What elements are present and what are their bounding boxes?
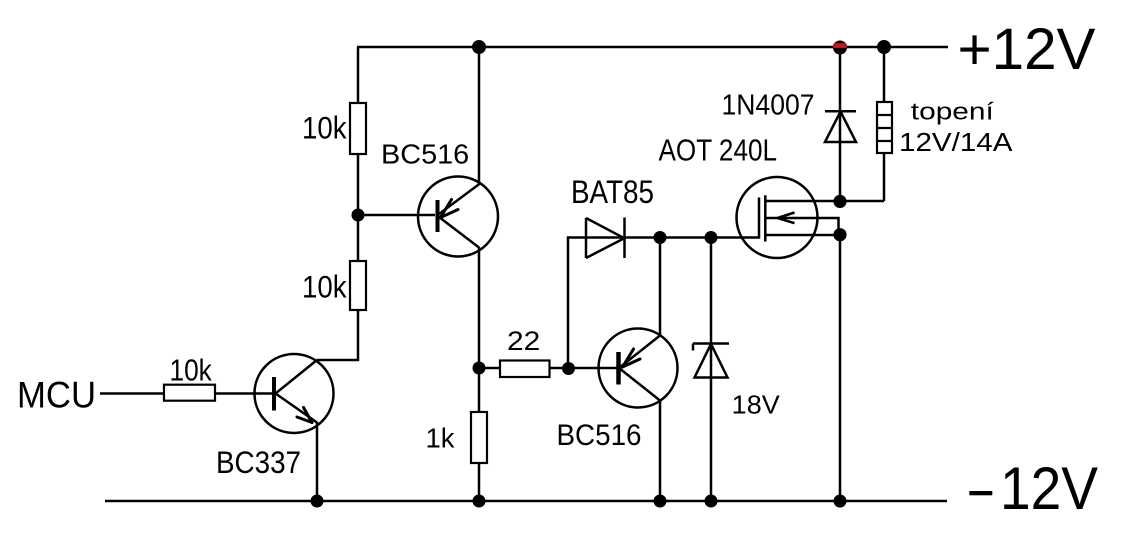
- svg-text:1k: 1k: [426, 423, 456, 454]
- svg-text:+12V: +12V: [958, 17, 1096, 82]
- svg-text:18V: 18V: [732, 390, 781, 420]
- svg-text:MCU: MCU: [17, 374, 96, 415]
- svg-text:topení: topení: [911, 99, 994, 126]
- svg-text:BC337: BC337: [216, 444, 301, 480]
- svg-text:10k: 10k: [302, 269, 347, 305]
- svg-text:12V/14A: 12V/14A: [899, 127, 1013, 157]
- svg-text:12V: 12V: [1000, 455, 1098, 522]
- svg-text:BC516: BC516: [557, 419, 642, 452]
- svg-text:10k: 10k: [302, 109, 347, 145]
- svg-text:22: 22: [507, 326, 540, 356]
- svg-text:10k: 10k: [170, 352, 213, 387]
- svg-text:AOT 240L: AOT 240L: [659, 133, 778, 168]
- svg-text:1N4007: 1N4007: [722, 90, 815, 122]
- svg-text:BAT85: BAT85: [571, 174, 654, 210]
- svg-text:BC516: BC516: [381, 138, 469, 169]
